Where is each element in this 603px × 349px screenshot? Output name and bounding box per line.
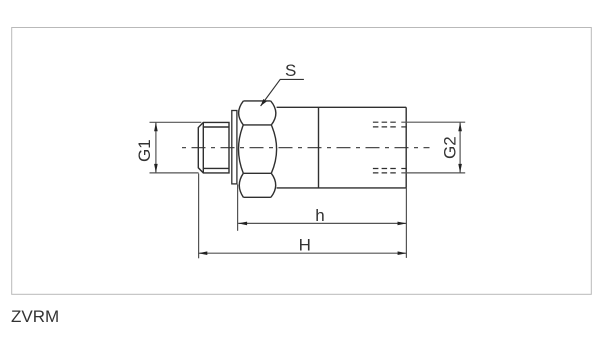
male thread stud — [198, 122, 229, 172]
svg-text:H: H — [299, 236, 311, 255]
dimension G2 line — [459, 122, 461, 173]
dimension G1 line — [155, 122, 157, 173]
adapter body — [277, 107, 407, 188]
dimension h line — [238, 222, 406, 224]
dimension G2 extension lines — [401, 122, 465, 173]
female thread hidden lines — [373, 122, 407, 173]
svg-text:ZVRM: ZVRM — [11, 307, 59, 326]
hex nut — [239, 101, 277, 197]
dimension G1 extension lines — [150, 122, 202, 173]
svg-text:G1: G1 — [135, 139, 154, 162]
svg-text:h: h — [315, 206, 324, 225]
washer flange — [232, 111, 237, 184]
wire centerline axis — [182, 147, 430, 149]
dimension H line — [198, 252, 406, 254]
border frame — [12, 28, 592, 295]
svg-text:S: S — [285, 61, 296, 80]
dimension H extension line — [198, 174, 200, 259]
dimension h extension lines — [237, 185, 239, 231]
label S leader — [261, 79, 304, 106]
svg-text:G2: G2 — [441, 136, 460, 159]
